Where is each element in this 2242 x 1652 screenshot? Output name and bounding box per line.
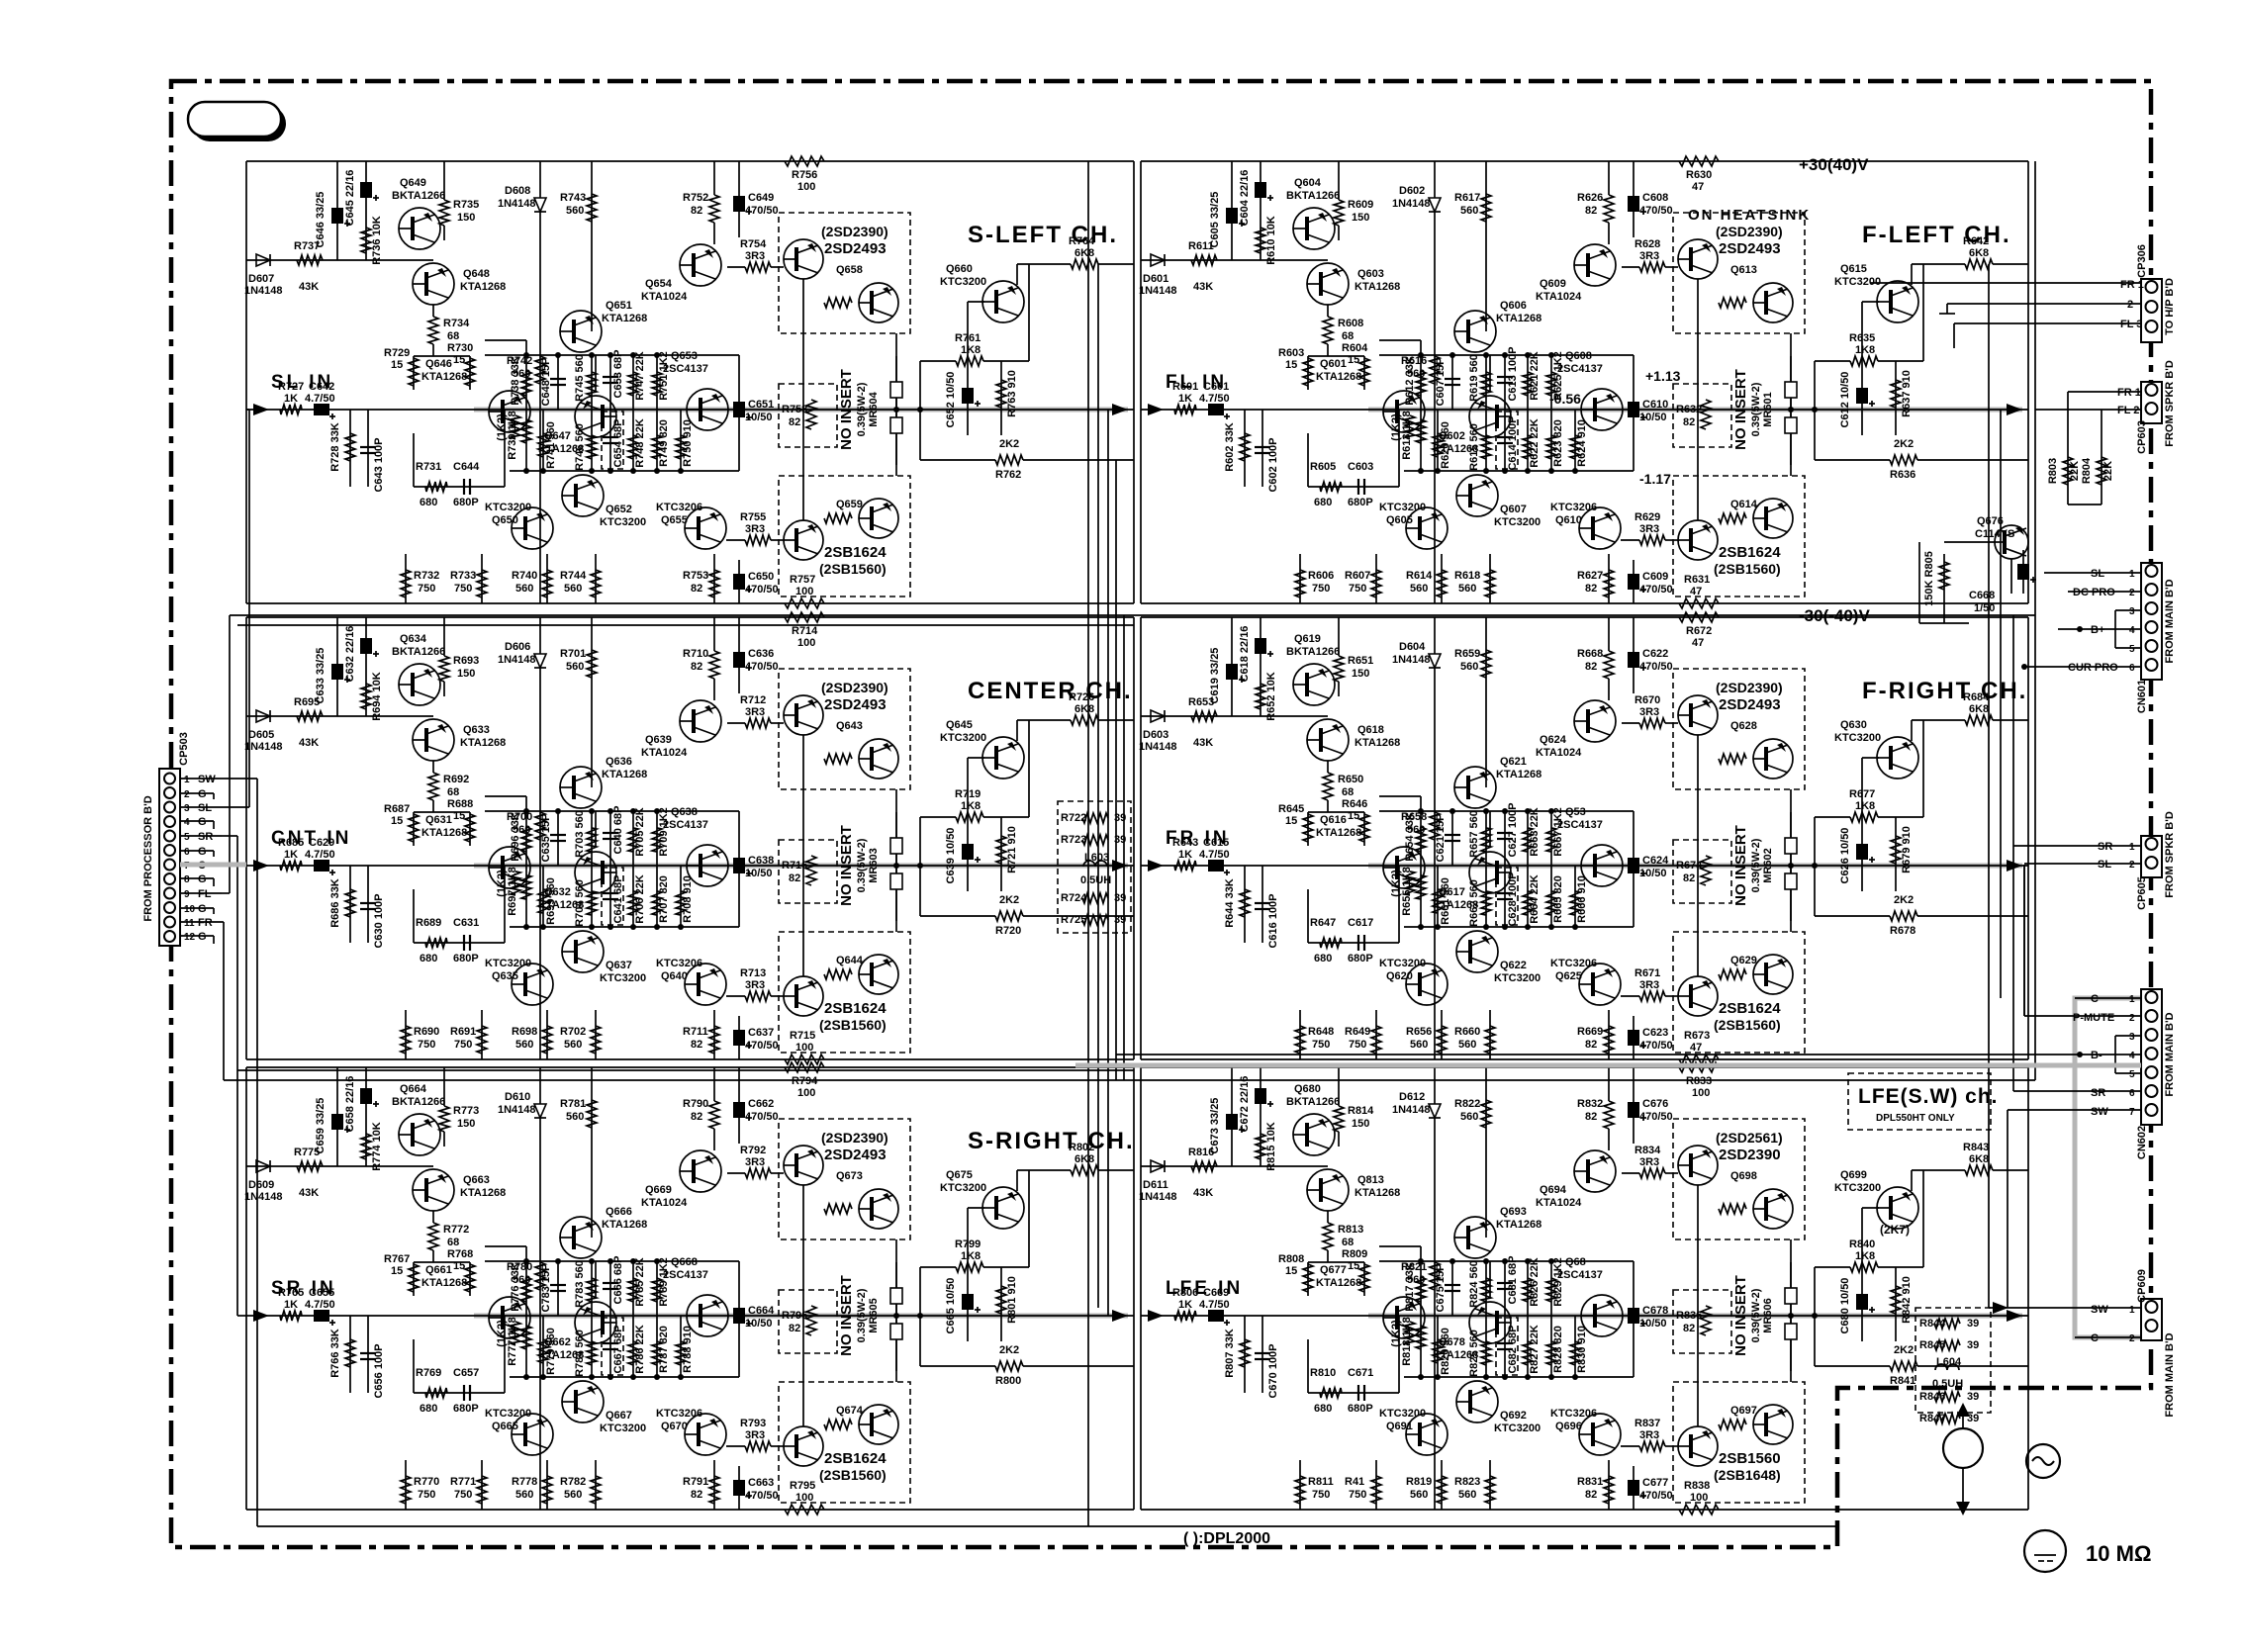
svg-text:SL: SL xyxy=(198,802,212,814)
svg-text:C652 10/50: C652 10/50 xyxy=(945,372,957,428)
svg-text:6: 6 xyxy=(184,847,190,858)
svg-text:Q651: Q651 xyxy=(606,300,632,312)
capacitor C649 xyxy=(733,192,779,217)
svg-text:R788 910: R788 910 xyxy=(682,1326,694,1373)
svg-text:D608: D608 xyxy=(505,185,530,197)
svg-text:Q664: Q664 xyxy=(400,1083,427,1095)
transistor Q653 xyxy=(663,350,728,430)
svg-text:C633 33/25: C633 33/25 xyxy=(315,648,327,704)
transistor Q677 xyxy=(1316,1264,1425,1338)
capacitor C621 15P xyxy=(1435,811,1460,866)
svg-text:3R3: 3R3 xyxy=(1639,706,1659,718)
resistor R712 xyxy=(740,694,771,728)
svg-text:470/50: 470/50 xyxy=(745,661,779,673)
svg-text:22K: 22K xyxy=(2102,461,2114,481)
svg-text:KTC3200: KTC3200 xyxy=(600,1423,646,1434)
resistor R699 560 xyxy=(538,866,557,927)
svg-text:R698: R698 xyxy=(512,1026,537,1038)
wire bias columns xyxy=(336,617,338,716)
svg-text:470/50: 470/50 xyxy=(745,1490,779,1502)
svg-text:KTC3200: KTC3200 xyxy=(485,1408,531,1420)
transistor Q699 xyxy=(1834,1169,1918,1229)
svg-text:3R3: 3R3 xyxy=(745,1156,765,1168)
svg-text:R729: R729 xyxy=(384,347,410,359)
capacitor C662 xyxy=(733,1098,779,1123)
svg-text:15: 15 xyxy=(391,1265,403,1277)
svg-text:R637 910: R637 910 xyxy=(1901,370,1913,417)
svg-text:(2SD2561): (2SD2561) xyxy=(1716,1130,1783,1146)
svg-text:R607: R607 xyxy=(1345,570,1370,582)
svg-text:R800: R800 xyxy=(995,1375,1021,1387)
svg-text:KTC3200: KTC3200 xyxy=(600,516,646,528)
svg-text:4: 4 xyxy=(2129,625,2135,636)
svg-text:0.39(5W-2): 0.39(5W-2) xyxy=(856,838,868,892)
svg-text:MR601: MR601 xyxy=(1762,392,1774,426)
wire bias columns xyxy=(336,161,338,260)
svg-text:680: 680 xyxy=(420,497,437,508)
wire bias to diff pair xyxy=(1327,305,1329,317)
wire driver column xyxy=(539,161,541,198)
svg-text:Q655: Q655 xyxy=(661,514,688,526)
svg-text:C662: C662 xyxy=(748,1098,774,1110)
svg-text:D602: D602 xyxy=(1399,185,1425,197)
svg-text:R696 33K: R696 33K xyxy=(510,812,521,862)
diode D602 xyxy=(1392,185,1441,212)
svg-text:R842 910: R842 910 xyxy=(1901,1276,1913,1324)
svg-text:1K: 1K xyxy=(1178,1299,1192,1311)
svg-text:(2SD2390): (2SD2390) xyxy=(1716,224,1783,239)
svg-text:R784 560: R784 560 xyxy=(574,1330,586,1377)
svg-text:DPL550HT ONLY: DPL550HT ONLY xyxy=(1876,1113,1955,1124)
resistor R787 820 xyxy=(652,1316,670,1377)
capacitor C664 xyxy=(733,1305,775,1330)
transistor Q631 xyxy=(421,814,530,888)
transistor Q664 xyxy=(392,1083,445,1155)
resistor R743 xyxy=(560,192,597,222)
resistor R657 560 xyxy=(1468,810,1491,866)
node output arrow xyxy=(2007,404,2022,415)
svg-text:470/50: 470/50 xyxy=(1639,1111,1673,1123)
svg-text:R605: R605 xyxy=(1310,461,1336,473)
capacitor C630 xyxy=(360,866,385,949)
resistor R744 xyxy=(560,554,601,603)
svg-text:R650: R650 xyxy=(1338,774,1363,785)
resistor R771 xyxy=(450,1460,487,1510)
svg-text:750: 750 xyxy=(1312,1489,1330,1501)
svg-text:82: 82 xyxy=(1585,1039,1597,1051)
capacitor C622 xyxy=(1628,648,1673,673)
svg-text:(2SB1560): (2SB1560) xyxy=(819,1467,887,1483)
resistor R779 560 xyxy=(538,1316,557,1377)
capacitor C645 xyxy=(344,170,379,227)
svg-text:LFE(S.W) ch.: LFE(S.W) ch. xyxy=(1858,1085,1999,1108)
svg-text:2SD2493: 2SD2493 xyxy=(1719,696,1781,713)
wire output columns xyxy=(1790,789,1792,932)
resistor R661 560 xyxy=(1433,866,1451,927)
resistor R762 xyxy=(920,438,1134,481)
svg-text:R725: R725 xyxy=(1061,914,1086,926)
capacitor C629 xyxy=(305,837,335,875)
svg-text:R689: R689 xyxy=(416,917,441,929)
svg-text:1K8: 1K8 xyxy=(961,344,981,356)
svg-text:KTC3200: KTC3200 xyxy=(1494,972,1541,984)
transistor Q639 xyxy=(641,700,721,759)
svg-text:C617: C617 xyxy=(1348,917,1373,929)
svg-text:68: 68 xyxy=(1342,786,1354,798)
svg-text:R646: R646 xyxy=(1342,798,1367,810)
capacitor C624 xyxy=(1628,855,1669,879)
svg-text:KTC3200: KTC3200 xyxy=(940,1182,986,1194)
svg-text:D604: D604 xyxy=(1399,641,1426,653)
resistor R764 xyxy=(1017,235,1134,285)
svg-text:(2SD2390): (2SD2390) xyxy=(821,680,888,695)
svg-text:R667 1K2: R667 1K2 xyxy=(1552,807,1564,857)
svg-text:SL: SL xyxy=(2098,859,2111,871)
svg-text:Q640: Q640 xyxy=(661,970,688,982)
svg-text:R773: R773 xyxy=(453,1105,479,1117)
svg-text:KTA1268: KTA1268 xyxy=(460,1187,506,1199)
wire cluster rails xyxy=(1379,795,1421,797)
svg-text:BKTA1266: BKTA1266 xyxy=(392,1096,445,1108)
svg-text:15: 15 xyxy=(453,810,465,822)
svg-text:KTC3206: KTC3206 xyxy=(1550,958,1597,969)
resistor R678 xyxy=(1815,894,2028,937)
svg-text:C676: C676 xyxy=(1642,1098,1668,1110)
capacitor C648 15P xyxy=(540,355,566,410)
resistor R747 22K xyxy=(628,351,646,410)
svg-text:Q653: Q653 xyxy=(671,350,698,362)
svg-text:C675 15P: C675 15P xyxy=(1435,1264,1447,1313)
wire main signal line xyxy=(1141,865,2028,867)
svg-text:82: 82 xyxy=(789,416,800,428)
capacitor C639 xyxy=(945,817,981,891)
svg-text:C644: C644 xyxy=(453,461,480,473)
transistor Q615 xyxy=(1834,263,1918,322)
svg-text:150: 150 xyxy=(457,1118,475,1130)
svg-text:KTC3200: KTC3200 xyxy=(1494,1423,1541,1434)
svg-text:R847: R847 xyxy=(1919,1413,1945,1424)
svg-text:KTA1268: KTA1268 xyxy=(1316,827,1361,839)
svg-text:C612 10/50: C612 10/50 xyxy=(1839,372,1851,428)
resistor R615 560 xyxy=(1468,410,1491,471)
svg-text:R622 22K: R622 22K xyxy=(1529,418,1541,468)
svg-text:2SD2493: 2SD2493 xyxy=(1719,240,1781,257)
svg-text:C631: C631 xyxy=(453,917,479,929)
svg-text:C671: C671 xyxy=(1348,1367,1373,1379)
svg-text:2: 2 xyxy=(184,789,190,800)
resistor R776 33K xyxy=(510,1246,531,1316)
svg-text:Q607: Q607 xyxy=(1500,504,1527,515)
svg-text:S-RIGHT CH.: S-RIGHT CH. xyxy=(968,1128,1135,1154)
resistor R660 xyxy=(1454,1010,1495,1059)
svg-text:470/50: 470/50 xyxy=(1639,1040,1673,1052)
resistor R795 on rail xyxy=(785,1480,824,1514)
resistor R624 910 xyxy=(1570,410,1588,471)
svg-text:1: 1 xyxy=(2129,569,2135,580)
svg-text:D605: D605 xyxy=(248,729,274,741)
resistor R838 on rail xyxy=(1679,1480,1719,1514)
svg-text:R747 22K: R747 22K xyxy=(634,351,646,401)
svg-text:R666 910: R666 910 xyxy=(1576,875,1588,923)
capacitor C636 xyxy=(733,648,779,673)
svg-text:C643 100P: C643 100P xyxy=(373,437,385,492)
inductor L604 output network xyxy=(1915,1308,1991,1424)
transistor Q616 xyxy=(1316,814,1425,888)
svg-text:39: 39 xyxy=(1967,1318,1979,1330)
svg-text:D601: D601 xyxy=(1143,273,1168,285)
svg-text:82: 82 xyxy=(691,205,702,217)
wire output columns xyxy=(895,333,897,476)
svg-text:100: 100 xyxy=(1692,1087,1710,1099)
svg-text:CP306: CP306 xyxy=(2136,244,2148,278)
capacitor C658 xyxy=(344,1076,379,1133)
svg-text:1N4148: 1N4148 xyxy=(1392,1104,1431,1116)
svg-text:R733: R733 xyxy=(450,570,476,582)
svg-text:3R3: 3R3 xyxy=(745,706,765,718)
capacitor C615 xyxy=(1199,837,1230,875)
capacitor C678 xyxy=(1628,1305,1668,1330)
svg-text:Q646: Q646 xyxy=(425,358,452,370)
svg-text:3R3: 3R3 xyxy=(1639,979,1659,991)
svg-text:C677: C677 xyxy=(1642,1477,1668,1489)
wire left frame xyxy=(245,617,247,1059)
resistor R667 1K2 xyxy=(1546,807,1564,866)
transistor KTC3206 xyxy=(1550,958,1621,1005)
svg-text:R801 910: R801 910 xyxy=(1006,1276,1018,1324)
svg-text:KTA1268: KTA1268 xyxy=(1355,1187,1400,1199)
transistor Q622 xyxy=(1456,931,1541,984)
resistor R745 560 xyxy=(574,354,597,410)
svg-text:15: 15 xyxy=(453,1260,465,1272)
output pair Q628 xyxy=(1673,669,1805,789)
svg-text:15: 15 xyxy=(1285,815,1297,827)
wire q676 net xyxy=(1919,622,1969,624)
resistor R621 22K xyxy=(1523,351,1541,410)
svg-text:1N4148: 1N4148 xyxy=(1392,198,1431,210)
svg-text:R720: R720 xyxy=(995,925,1021,937)
resistor R843 xyxy=(1912,1142,2028,1191)
transistor Q666 xyxy=(560,1206,647,1258)
capacitor C642 xyxy=(305,381,335,419)
svg-text:R678: R678 xyxy=(1890,925,1915,937)
inductor L603 output network xyxy=(1058,801,1131,933)
capacitor C651 xyxy=(733,399,774,423)
wire driver column xyxy=(1434,161,1436,198)
resistor R708 910 xyxy=(676,866,694,927)
svg-text:11: 11 xyxy=(184,918,195,929)
svg-text:C653 68P: C653 68P xyxy=(612,350,624,399)
svg-text:Q658: Q658 xyxy=(836,264,863,276)
svg-text:150K R805: 150K R805 xyxy=(1923,551,1935,606)
diode D611 xyxy=(1139,1160,1177,1203)
svg-text:Q691: Q691 xyxy=(1386,1421,1413,1432)
wire bias to diff pair xyxy=(432,1211,434,1223)
resistor R734 xyxy=(428,317,470,344)
resistor R623 820 xyxy=(1546,410,1564,471)
svg-text:KTA1268: KTA1268 xyxy=(1496,313,1541,324)
svg-text:NO INSERT: NO INSERT xyxy=(838,369,855,450)
svg-text:C649: C649 xyxy=(748,192,774,204)
capacitor C627 100P xyxy=(1497,802,1519,866)
transistor Q645 xyxy=(940,719,1024,779)
svg-text:Q605: Q605 xyxy=(1386,514,1413,526)
resistor R655 1K8 xyxy=(1401,866,1426,927)
svg-text:C636: C636 xyxy=(748,648,774,660)
svg-text:S-LEFT CH.: S-LEFT CH. xyxy=(968,222,1118,248)
svg-text:2SB1624: 2SB1624 xyxy=(1719,1000,1781,1017)
svg-text:KTC3200: KTC3200 xyxy=(485,502,531,513)
svg-text:1K: 1K xyxy=(1178,393,1192,405)
resistor R715 on rail xyxy=(785,1030,824,1064)
svg-text:82: 82 xyxy=(691,1039,702,1051)
svg-text:KTC3200: KTC3200 xyxy=(1379,958,1426,969)
svg-text:C114YS: C114YS xyxy=(1975,528,2014,540)
resistor R659 xyxy=(1454,648,1491,678)
svg-text:D611: D611 xyxy=(1143,1179,1168,1191)
svg-text:680: 680 xyxy=(1314,1403,1332,1415)
svg-text:43K: 43K xyxy=(1193,1187,1213,1199)
svg-text:0.5UH: 0.5UH xyxy=(1080,874,1111,886)
resistor R714 on rail xyxy=(785,612,824,649)
resistor R673 on rail xyxy=(1679,1030,1719,1064)
capacitor C667 68P xyxy=(603,1316,624,1377)
svg-text:Q68: Q68 xyxy=(1565,1256,1586,1268)
svg-text:C613 100P: C613 100P xyxy=(1507,346,1519,401)
resistor R701 xyxy=(560,648,597,678)
svg-text:560: 560 xyxy=(1410,1489,1428,1501)
svg-text:(2SD2390): (2SD2390) xyxy=(1716,680,1783,695)
diode D604 xyxy=(1392,641,1441,668)
svg-text:C608: C608 xyxy=(1642,192,1668,204)
resistor (1K2) xyxy=(496,410,520,441)
svg-text:R806: R806 xyxy=(1172,1287,1198,1299)
resistor R606 xyxy=(1295,554,1334,603)
resistor R768 xyxy=(447,1248,475,1292)
svg-text:2: 2 xyxy=(2129,1013,2135,1024)
svg-text:(2SB1560): (2SB1560) xyxy=(1714,1017,1781,1033)
svg-text:R756: R756 xyxy=(792,169,817,181)
resistor R749 820 xyxy=(652,410,670,471)
svg-text:R617: R617 xyxy=(1454,192,1480,204)
resistor R831 xyxy=(1577,1460,1614,1510)
svg-text:Q619: Q619 xyxy=(1294,633,1321,645)
capacitor C659 xyxy=(315,1098,350,1154)
svg-text:R621 22K: R621 22K xyxy=(1529,351,1541,401)
svg-text:KTA1268: KTA1268 xyxy=(602,313,647,324)
svg-text:MR605: MR605 xyxy=(868,1298,880,1332)
resistor R834 xyxy=(1635,1145,1665,1178)
resistor R716 no-insert xyxy=(779,840,837,903)
svg-text:FR 1: FR 1 xyxy=(2120,279,2144,291)
svg-text:Q624: Q624 xyxy=(1540,734,1567,746)
capacitor C668 xyxy=(1969,550,2036,614)
wire top supply rail xyxy=(1141,1066,2028,1068)
output pair Q658 xyxy=(779,213,910,333)
svg-text:3: 3 xyxy=(2129,1032,2135,1043)
resistor R842 xyxy=(1891,1267,1913,1341)
resistor R758 no-insert xyxy=(779,384,837,447)
svg-text:KTC3200: KTC3200 xyxy=(600,972,646,984)
wire signal highlight xyxy=(1368,1314,2022,1319)
svg-text:R771: R771 xyxy=(450,1476,476,1488)
resistor R602 xyxy=(1224,410,1250,487)
svg-text:560: 560 xyxy=(566,205,584,217)
svg-text:C627 100P: C627 100P xyxy=(1507,802,1519,857)
wire driver column xyxy=(539,1067,541,1104)
svg-text:Q694: Q694 xyxy=(1540,1184,1567,1196)
svg-text:(1K2): (1K2) xyxy=(496,870,508,897)
capacitor C783 15P xyxy=(540,1261,566,1316)
resistor R778 xyxy=(512,1460,552,1510)
transistor Q53 xyxy=(1557,806,1623,886)
svg-text:C623: C623 xyxy=(1642,1027,1668,1039)
svg-text:R786 22K: R786 22K xyxy=(634,1325,646,1374)
svg-text:750: 750 xyxy=(418,1039,435,1051)
svg-text:4.7/50: 4.7/50 xyxy=(1199,393,1230,405)
resistor R672 on rail xyxy=(1679,612,1719,649)
wire main signal line xyxy=(246,865,1134,867)
svg-text:R753: R753 xyxy=(683,570,708,582)
resistor R665 820 xyxy=(1546,866,1564,927)
resistor R618 xyxy=(1454,554,1495,603)
svg-text:68: 68 xyxy=(447,1237,459,1248)
svg-text:Q666: Q666 xyxy=(606,1206,632,1218)
resistor R608 xyxy=(1323,317,1363,344)
svg-text:Q698: Q698 xyxy=(1730,1170,1757,1182)
resistor R739 1K8 xyxy=(507,410,531,471)
resistor R790 xyxy=(683,1098,719,1129)
svg-text:MR606: MR606 xyxy=(1762,1298,1774,1332)
svg-text:82: 82 xyxy=(691,661,702,673)
svg-text:5: 5 xyxy=(2129,644,2135,655)
svg-text:150: 150 xyxy=(1352,1118,1369,1130)
capacitor C614 100P xyxy=(1497,410,1519,471)
svg-text:R824 560: R824 560 xyxy=(1468,1260,1480,1308)
svg-text:NO INSERT: NO INSERT xyxy=(838,825,855,906)
svg-text:G: G xyxy=(198,903,207,915)
resistor R789 1K2 xyxy=(652,1257,670,1316)
capacitor C613 100P xyxy=(1497,346,1519,410)
resistor R826 22K xyxy=(1523,1257,1541,1316)
resistor R766 xyxy=(329,1316,355,1393)
svg-text:82: 82 xyxy=(691,1489,702,1501)
resistor R753 xyxy=(683,554,719,603)
capacitor C619 xyxy=(1209,648,1245,704)
resistor R782 xyxy=(560,1460,601,1510)
capacitor C643 xyxy=(360,410,385,493)
svg-text:KTA1268: KTA1268 xyxy=(1316,371,1361,383)
svg-text:R602 33K: R602 33K xyxy=(1224,422,1236,472)
svg-text:KTA1268: KTA1268 xyxy=(602,1219,647,1231)
svg-text:Q650: Q650 xyxy=(492,514,518,526)
capacitor C682 68P xyxy=(1497,1316,1519,1377)
svg-text:R758: R758 xyxy=(782,404,807,415)
svg-text:R702: R702 xyxy=(560,1026,586,1038)
resistor R604 xyxy=(1342,342,1369,386)
capacitor C637 xyxy=(733,1016,779,1059)
wire output columns xyxy=(1790,1239,1792,1382)
svg-text:2SD2493: 2SD2493 xyxy=(824,1147,887,1163)
svg-text:1K: 1K xyxy=(1178,849,1192,861)
svg-text:R685: R685 xyxy=(278,837,304,849)
svg-text:15: 15 xyxy=(1285,1265,1297,1277)
svg-text:150: 150 xyxy=(457,212,475,224)
resistor R697 1K8 xyxy=(507,866,531,927)
wire right frame xyxy=(2027,1067,2029,1510)
wire input branch xyxy=(246,259,337,261)
resistor R748 22K xyxy=(628,410,646,471)
svg-text:(2SD2390): (2SD2390) xyxy=(821,1130,888,1146)
